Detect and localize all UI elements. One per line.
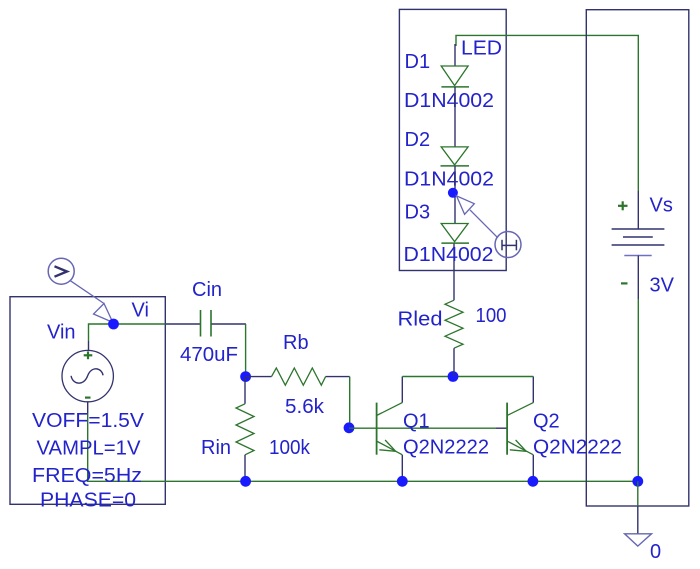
ground pin xyxy=(637,506,639,534)
battery Vs plates xyxy=(612,229,665,245)
enclosure box (LED group) xyxy=(399,9,506,270)
svg-text:D2: D2 xyxy=(405,129,431,151)
resistor Rled zigzag xyxy=(445,300,463,348)
resistor Rin zigzag xyxy=(236,404,254,455)
battery Vs bottom short plate xyxy=(624,255,651,257)
resistor Rled top pin xyxy=(453,243,455,300)
transistor Q2 emitter diagonal xyxy=(508,442,533,455)
svg-text:100: 100 xyxy=(476,305,507,327)
capacitor Cin right pin xyxy=(212,323,246,325)
resistor Rb zigzag xyxy=(272,368,326,385)
resistor Rled bottom pin xyxy=(453,348,455,376)
transistor Q1 collector lead xyxy=(401,377,403,403)
svg-text:3V: 3V xyxy=(650,275,675,297)
current marker probe circle (H) xyxy=(495,232,521,258)
resistor Rb left pin xyxy=(246,376,272,378)
svg-text:VAMPL=1V: VAMPL=1V xyxy=(37,438,142,460)
wire LED top xyxy=(456,35,638,191)
diode D2 triangle xyxy=(441,147,468,165)
svg-text:Q2: Q2 xyxy=(533,411,560,433)
wire node Vi to source (horizontal+vertical) xyxy=(89,324,114,341)
svg-text:Rb: Rb xyxy=(283,332,309,354)
resistor Rin top pin xyxy=(244,377,246,404)
svg-text:Vin: Vin xyxy=(47,322,76,344)
svg-text:VOFF=1.5V: VOFF=1.5V xyxy=(32,410,145,432)
svg-text:Q1: Q1 xyxy=(403,411,430,433)
current marker arrowhead (hollow) xyxy=(457,196,475,214)
svg-text:FREQ=5Hz: FREQ=5Hz xyxy=(32,465,142,487)
capacitor Cin left pin xyxy=(166,323,200,325)
svg-text:Cin: Cin xyxy=(192,279,222,301)
diode D2 cathode bar xyxy=(441,165,470,167)
svg-text:Q2N2222: Q2N2222 xyxy=(533,437,622,459)
svg-text:LED: LED xyxy=(461,38,502,60)
transistor Q2 collector lead xyxy=(532,377,534,403)
wire node Vi to capacitor xyxy=(114,323,166,325)
sine source bottom pin xyxy=(87,402,89,413)
wire collector staple xyxy=(402,376,533,378)
svg-text:D1N4002: D1N4002 xyxy=(404,244,494,266)
wire D2 to D3 xyxy=(454,166,456,224)
voltage marker arrowhead (hollow) xyxy=(94,304,113,323)
battery Vs bottom pin xyxy=(637,256,639,300)
junction node (base) xyxy=(344,422,355,433)
wire capacitor down to node xyxy=(245,324,247,377)
svg-text:Vs: Vs xyxy=(650,195,673,217)
svg-text:0: 0 xyxy=(650,541,661,563)
transistor Q1 emitter arrow xyxy=(379,440,395,451)
sine source V1 top pin xyxy=(88,341,90,351)
svg-text:100k: 100k xyxy=(269,437,311,459)
svg-text:Q2N2222: Q2N2222 xyxy=(403,437,489,459)
diode D1 cathode bar xyxy=(441,86,469,88)
svg-text:D3: D3 xyxy=(405,202,431,224)
junction node (Q1 emitter/rail) xyxy=(397,476,408,487)
junction node (D2/D3 probe point) xyxy=(448,188,458,198)
transistor Q1 emitter diagonal xyxy=(377,442,402,455)
enclosure box (Vs group) xyxy=(586,10,689,506)
svg-text:5.6k: 5.6k xyxy=(285,396,325,418)
wire source to ground rail xyxy=(88,413,638,481)
junction node (Q2 emitter/rail) xyxy=(528,476,539,487)
diode D3 triangle xyxy=(441,224,468,242)
battery Vs top pin xyxy=(637,191,639,229)
svg-text:470uF: 470uF xyxy=(180,344,238,366)
wire D1 to D2 xyxy=(454,87,456,147)
wire base node to Q2 base xyxy=(349,427,496,429)
transistor Q2 emitter arrow xyxy=(510,440,526,451)
enclosure box (Vin source group) xyxy=(10,297,165,505)
svg-text:D1N4002: D1N4002 xyxy=(404,169,494,191)
svg-text:D1N4002: D1N4002 xyxy=(404,90,494,112)
svg-text:Rin: Rin xyxy=(201,437,231,459)
svg-text:Rled: Rled xyxy=(398,309,443,331)
wire battery to rail xyxy=(637,299,639,481)
junction node (Rin/rail) xyxy=(240,476,251,487)
sine source V1 circle xyxy=(62,350,113,401)
battery minus mark xyxy=(621,282,628,284)
svg-text:PHASE=0: PHASE=0 xyxy=(40,490,136,512)
plus mark xyxy=(84,351,93,359)
junction node (rail/ground) xyxy=(632,476,643,487)
transistor Q2 base bar xyxy=(506,403,508,455)
transistor Q2 collector diagonal xyxy=(507,403,533,416)
voltage marker probe V (circle with >) xyxy=(48,258,74,284)
junction node (Rled/collectors) xyxy=(448,371,459,382)
battery plus mark xyxy=(618,201,628,210)
current marker shaft xyxy=(470,210,498,238)
voltage marker shaft xyxy=(71,281,105,304)
Q2 base pin stub xyxy=(496,427,507,429)
svg-text:D1: D1 xyxy=(405,51,431,73)
sine source squiggle xyxy=(71,369,103,383)
diode D1 triangle xyxy=(441,66,468,86)
transistor Q1 emitter lead xyxy=(401,455,403,482)
diode D3 cathode bar xyxy=(441,242,469,244)
junction node (Cin/Rin/Rb) xyxy=(240,371,251,382)
resistor Rin bottom pin xyxy=(244,455,246,482)
transistor Q2 emitter lead xyxy=(532,455,534,482)
wire Rb down to base node xyxy=(349,377,351,428)
transistor Q1 base bar xyxy=(376,403,378,455)
ground symbol 0 xyxy=(625,534,652,546)
svg-text:Vi: Vi xyxy=(132,300,149,322)
capacitor Cin plates xyxy=(201,310,212,337)
junction node Vi xyxy=(108,319,119,330)
diode D1 anode pin xyxy=(454,44,456,66)
minus mark xyxy=(85,397,91,399)
wire node to box bottom xyxy=(637,481,639,506)
resistor Rb right pin xyxy=(326,376,350,378)
transistor Q1 collector diagonal xyxy=(377,403,403,416)
